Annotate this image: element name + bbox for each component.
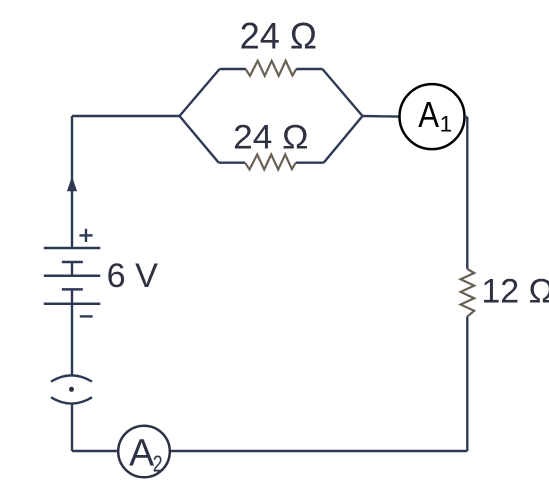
wire: right vertical lower (resistor to bottom-right corner) (466, 317, 468, 452)
wire: bottom branch left diagonal from left junction (180, 116, 219, 163)
wire: bottom horizontal left (ammeter A2 to bottom-left corner) (72, 450, 118, 452)
wire: left vertical middle (battery - terminal down to lamp) (71, 304, 73, 375)
wire: bottom branch left horizontal lead (219, 161, 245, 163)
wire: left vertical upper (top corner down to battery + terminal) (71, 116, 73, 248)
svg-text:6 V: 6 V (107, 257, 158, 295)
ammeter A2 (118, 426, 170, 478)
battery B1 6 V (three long plates, two short plates, connecting ticks) (44, 248, 101, 304)
wire: bottom branch right horizontal lead (296, 161, 324, 163)
svg-text:2: 2 (153, 450, 163, 476)
wire: top branch left horizontal lead (220, 68, 246, 70)
ammeter A1 (400, 84, 465, 149)
wire: left vertical bottom (corner up to lamp) (71, 403, 73, 451)
current direction arrow (pointing up) (67, 177, 77, 192)
resistor R2 24 ohm (bottom parallel branch) (245, 155, 296, 170)
wire: bottom branch right diagonal to right junction (324, 116, 363, 163)
wire: ammeter A1 to top-right corner (465, 116, 468, 118)
battery positive terminal marker + (79, 229, 92, 242)
wire: top branch right horizontal lead (296, 68, 322, 70)
wire: top-left horizontal (battery branch to left junction) (72, 115, 180, 117)
svg-text:12 Ω: 12 Ω (481, 272, 549, 310)
lamp L1 (two arcs with centre dot) (51, 375, 92, 403)
svg-text:1: 1 (440, 112, 453, 137)
wire: top branch right diagonal to right junction (322, 69, 362, 116)
svg-text:24 Ω: 24 Ω (233, 119, 308, 157)
battery negative terminal marker - (80, 315, 93, 317)
wire: right junction to ammeter A1 (363, 115, 400, 118)
wire: right vertical upper (corner down to 12 ohm resistor) (466, 117, 468, 269)
svg-text:24 Ω: 24 Ω (240, 16, 317, 57)
svg-text:A: A (418, 94, 439, 135)
resistor R3 12 ohm (right side) (461, 269, 475, 317)
svg-text:A: A (129, 433, 155, 475)
resistor R1 24 ohm (top parallel branch) (246, 61, 297, 76)
wire: bottom horizontal right (corner to ammeter A2) (170, 450, 467, 452)
wire: top branch left diagonal from left junction (180, 69, 220, 116)
